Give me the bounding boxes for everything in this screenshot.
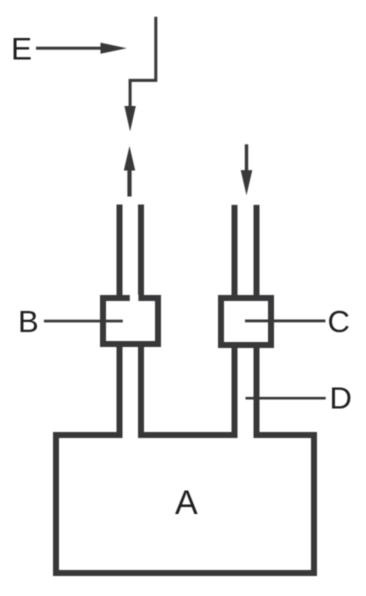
arrow down into tube C xyxy=(241,144,253,195)
wire inlet vertical xyxy=(130,17,156,107)
svg-text:B: B xyxy=(18,304,39,339)
tube D left wall xyxy=(232,348,238,438)
arrow E pointing right xyxy=(36,43,127,54)
tube B wall joint left xyxy=(117,432,123,438)
box C xyxy=(221,298,271,345)
tube D wall joint right xyxy=(254,432,260,438)
tube B upper right wall xyxy=(138,205,144,302)
tube B wall joint right xyxy=(138,432,144,438)
lead line B xyxy=(44,320,123,323)
lead line C xyxy=(245,320,325,323)
tube B upper left wall xyxy=(117,205,123,302)
tube D wall joint left xyxy=(232,432,238,438)
box B top opening xyxy=(130,295,139,302)
box B xyxy=(103,298,158,344)
tube B lower left wall xyxy=(117,347,123,438)
svg-text:C: C xyxy=(328,304,350,339)
lead line D xyxy=(246,397,326,400)
svg-text:E: E xyxy=(11,31,32,67)
tube C upper left wall xyxy=(232,205,238,301)
vessel A top opening for tube B xyxy=(123,431,139,439)
tube C upper right wall xyxy=(254,205,260,301)
vessel A top opening for tube D xyxy=(238,431,254,439)
arrow down into gap xyxy=(124,106,135,132)
vessel A xyxy=(56,435,314,573)
svg-text:D: D xyxy=(330,380,352,415)
tube D right wall xyxy=(254,348,260,438)
arrow up from tube B xyxy=(124,146,135,197)
tube B lower right wall xyxy=(138,347,144,438)
svg-text:A: A xyxy=(175,484,198,522)
